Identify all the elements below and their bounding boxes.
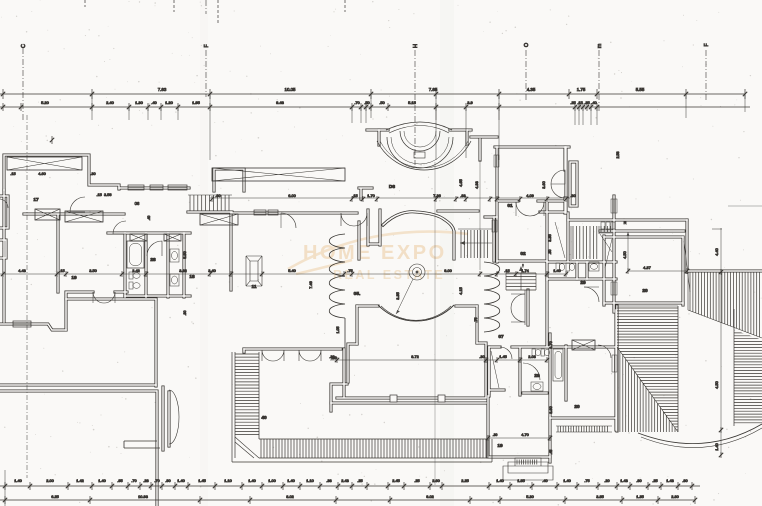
svg-text:5.30: 5.30 [526, 494, 534, 499]
brace band top-left [7, 157, 82, 170]
svg-text:C: C [21, 44, 27, 48]
svg-text:F: F [204, 44, 210, 47]
svg-text:.20: .20 [604, 478, 610, 483]
svg-text:4.09: 4.09 [526, 193, 534, 198]
door arcs room19 terrace [93, 292, 115, 303]
svg-text:↑: ↑ [522, 264, 524, 269]
brace box 19a [35, 209, 60, 220]
sink left 2 [170, 274, 179, 286]
svg-text:.35: .35 [584, 100, 590, 105]
svg-text:3.35: 3.35 [396, 292, 400, 299]
toilet left 1 [129, 272, 133, 279]
grid line m [598, 50, 600, 113]
terrace40 left band [235, 352, 259, 458]
sink NE [589, 262, 599, 271]
porch door arc [70, 197, 85, 212]
sink bath3 [531, 382, 543, 391]
svg-text:4.50: 4.50 [715, 381, 719, 388]
svg-text:.25: .25 [570, 100, 576, 105]
svg-text:.40: .40 [147, 216, 151, 221]
svg-text:1.40: 1.40 [553, 268, 561, 273]
svg-text:.90: .90 [165, 478, 171, 483]
svg-text:5.50: 5.50 [183, 251, 187, 258]
svg-text:.15: .15 [504, 268, 509, 273]
svg-text:.30: .30 [329, 354, 335, 359]
svg-text:17: 17 [33, 197, 39, 203]
window room20low [612, 355, 617, 372]
svg-text:.40: .40 [591, 100, 597, 105]
svg-text:.70: .70 [354, 100, 360, 105]
svg-text:29: 29 [580, 280, 586, 286]
svg-text:4.40: 4.40 [715, 248, 719, 255]
svg-text:.30: .30 [90, 171, 96, 176]
svg-text:3.60: 3.60 [542, 181, 546, 188]
svg-text:7.46: 7.46 [309, 281, 313, 288]
svg-text:10.93: 10.93 [138, 494, 148, 499]
stairs NE [573, 226, 597, 259]
svg-text:2.80: 2.80 [671, 494, 679, 499]
scallops left [329, 234, 345, 318]
bay niche semicircle [377, 141, 471, 170]
central staircase [461, 230, 487, 258]
svg-text:2.43: 2.43 [341, 478, 349, 483]
svg-text:1.40: 1.40 [98, 478, 106, 483]
hatch strip room20low [558, 426, 607, 432]
NE stair rail diagonal [600, 234, 612, 252]
svg-text:1.40: 1.40 [14, 478, 22, 483]
svg-text:4.15: 4.15 [459, 287, 463, 294]
svg-text:5.15: 5.15 [408, 100, 417, 105]
top edge marks [85, 0, 345, 24]
fireplace [246, 256, 262, 286]
svg-text:3.40: 3.40 [208, 268, 216, 273]
svg-text:R: R [624, 220, 627, 225]
double door room03 [551, 170, 565, 198]
room18 door arc1 [281, 213, 296, 228]
svg-text:9.48: 9.48 [276, 100, 285, 105]
svg-text:1.40: 1.40 [287, 478, 295, 483]
svg-text:.80: .80 [682, 478, 688, 483]
svg-text:9.02: 9.02 [426, 494, 434, 499]
bay small semicircle [400, 131, 440, 151]
toilets bath3 [532, 349, 535, 356]
svg-text:.25: .25 [357, 478, 362, 483]
svg-text:.25: .25 [652, 478, 657, 483]
room18 door arc2 pair [341, 213, 367, 226]
stairs left wing [190, 195, 229, 211]
brace box room20low [572, 340, 595, 350]
bottom-left boundary [4, 470, 6, 506]
svg-text:05.: 05. [354, 291, 361, 297]
window bottom-left [13, 321, 31, 327]
svg-text:1.35: 1.35 [636, 494, 644, 499]
toilet left 2 [129, 282, 133, 289]
svg-text:.15 3.56: .15 3.56 [96, 192, 111, 197]
svg-text:1.43: 1.43 [620, 478, 628, 483]
svg-text:11: 11 [251, 284, 256, 290]
bathtub left [127, 241, 144, 268]
chain room19b [488, 437, 550, 439]
svg-text:1.20: 1.20 [165, 100, 174, 105]
lintel box bath A [130, 234, 147, 241]
svg-text:1.10: 1.10 [224, 478, 232, 483]
svg-text:O: O [524, 42, 530, 47]
room20 dim [628, 232, 687, 271]
svg-text:.30: .30 [493, 433, 498, 437]
grid line 6 [705, 50, 707, 100]
svg-text:m: m [597, 43, 603, 48]
svg-text:3.70: 3.70 [549, 341, 553, 348]
svg-text:6.25: 6.25 [51, 494, 59, 499]
sink left 1 [170, 249, 179, 262]
grid line O [525, 50, 527, 100]
svg-text:1.40: 1.40 [248, 478, 256, 483]
NE bottom arcs [638, 424, 762, 444]
svg-text:02: 02 [520, 251, 526, 257]
svg-text:4.37: 4.37 [643, 265, 652, 270]
grid line H [414, 50, 416, 165]
cross tick [51, 136, 53, 144]
bay tab [414, 152, 425, 158]
scallops left lower [344, 318, 346, 348]
svg-text:28: 28 [150, 257, 156, 263]
svg-text:2.40: 2.40 [106, 100, 115, 105]
svg-text:1.05: 1.05 [336, 327, 340, 334]
svg-text:4.43: 4.43 [18, 268, 26, 273]
svg-text:3.92: 3.92 [179, 268, 187, 273]
radius leader [396, 279, 413, 314]
svg-text:5.20: 5.20 [41, 100, 50, 105]
svg-text:5.40: 5.40 [288, 268, 296, 273]
bathtub bath3 [553, 349, 563, 381]
bay outer arch [386, 122, 452, 130]
reference line x435 [434, 162, 436, 485]
svg-text:.90: .90 [215, 193, 221, 198]
svg-text:.15: .15 [577, 100, 583, 105]
svg-text:8.02: 8.02 [286, 494, 294, 499]
hall double door east [511, 294, 525, 322]
svg-text:1.40: 1.40 [715, 443, 719, 450]
svg-text:7.65: 7.65 [429, 87, 438, 92]
scallops right [484, 262, 500, 332]
svg-text:18: 18 [189, 274, 195, 280]
svg-text:4.93: 4.93 [475, 181, 479, 188]
svg-text:.40: .40 [542, 478, 548, 483]
door arc room28 [147, 241, 162, 256]
svg-text:.70: .70 [154, 478, 160, 483]
dimension chain C [0, 485, 700, 487]
chain y199 [210, 197, 570, 199]
porch windows [128, 185, 144, 190]
dimension chain D [0, 499, 695, 501]
svg-text:2.58: 2.58 [616, 152, 620, 159]
dimension chain B [0, 106, 750, 108]
room18 windows [254, 210, 266, 215]
svg-text:4.70: 4.70 [521, 432, 529, 437]
svg-text:1.75: 1.75 [577, 87, 586, 92]
svg-text:2.42: 2.42 [132, 268, 140, 273]
svg-text:4.60: 4.60 [38, 171, 46, 176]
window rooms01 left [494, 155, 499, 167]
svg-text:.75: .75 [584, 478, 589, 483]
svg-text:1.85: 1.85 [517, 478, 525, 483]
svg-text:D8: D8 [389, 184, 395, 190]
svg-text:8.72: 8.72 [411, 354, 419, 359]
svg-text:.15: .15 [59, 268, 64, 273]
svg-text:.75: .75 [474, 318, 478, 323]
svg-text:2.03: 2.03 [528, 354, 536, 359]
svg-text:6.00: 6.00 [288, 193, 296, 198]
NE dim vertical [712, 228, 722, 455]
faint partial line top right [728, 205, 762, 207]
svg-text:.70: .70 [131, 478, 137, 483]
dashed reference line x27 [26, 115, 28, 478]
door arc room20low [598, 345, 611, 358]
left edge door arc [0, 199, 8, 208]
svg-text:01: 01 [507, 203, 513, 209]
terrace40 miter [235, 437, 259, 458]
svg-text:3.50: 3.50 [89, 268, 97, 273]
svg-text:07: 07 [498, 334, 504, 340]
bracket [124, 441, 160, 448]
svg-text:.93: .93 [460, 193, 465, 198]
door arc bath3 inner [523, 363, 540, 380]
door arc room29 [584, 287, 599, 302]
svg-text:.95: .95 [117, 478, 122, 483]
svg-text:20: 20 [642, 288, 648, 294]
svg-text:.45: .45 [549, 450, 553, 455]
svg-text:.30: .30 [570, 193, 576, 198]
toilet NE 1 [556, 263, 560, 271]
svg-text:3.85: 3.85 [596, 494, 604, 499]
railing posts [390, 395, 397, 402]
toilet NE 2 [566, 263, 570, 271]
corridor door arc [113, 221, 126, 234]
brace box 18 [200, 214, 238, 225]
dimension chain A [0, 93, 745, 95]
svg-text:1.40: 1.40 [177, 478, 185, 483]
svg-text:.30: .30 [479, 354, 485, 359]
svg-text:1.00: 1.00 [268, 478, 276, 483]
watermark swoosh [288, 232, 468, 274]
windows room29 right wall [611, 199, 617, 213]
svg-text:9.00: 9.00 [444, 268, 452, 273]
svg-text:3.35: 3.35 [548, 234, 552, 241]
svg-text:2.00: 2.00 [46, 478, 54, 483]
terrace40 door arcs [262, 350, 284, 361]
stairs below room02 [506, 273, 536, 290]
svg-text:1.45: 1.45 [499, 354, 507, 359]
svg-text:1.95: 1.95 [192, 100, 201, 105]
svg-text:10.05: 10.05 [285, 87, 297, 92]
svg-text:4.65: 4.65 [459, 179, 463, 186]
svg-text:5.55: 5.55 [636, 87, 645, 92]
svg-text:7.36: 7.36 [433, 193, 441, 198]
door arc bath3 [500, 347, 512, 359]
mullions room20 band [601, 222, 605, 229]
svg-text:H: H [413, 44, 419, 48]
svg-text:.28: .28 [143, 478, 148, 483]
hall center mark [416, 271, 419, 274]
svg-text:1.70: 1.70 [367, 193, 375, 198]
svg-text:.40: .40 [151, 100, 157, 105]
beam X-band [212, 168, 345, 181]
terrace40 outer boundary [232, 352, 492, 462]
niche arc [169, 390, 179, 444]
svg-text:2.45: 2.45 [392, 478, 400, 483]
svg-text:2.25: 2.25 [461, 478, 469, 483]
svg-text:19: 19 [497, 443, 503, 449]
svg-text:1.30: 1.30 [135, 100, 144, 105]
svg-text:1.42: 1.42 [76, 478, 84, 483]
svg-text:.15: .15 [10, 171, 15, 176]
svg-text:2.60: 2.60 [432, 478, 440, 483]
svg-text:.15: .15 [352, 193, 357, 198]
svg-text:3.9: 3.9 [467, 100, 473, 105]
svg-text:.80: .80 [636, 478, 642, 483]
lintel box bath B [164, 234, 181, 241]
grid line C [22, 48, 24, 120]
terrace40 bottom band [259, 439, 488, 458]
svg-text:20: 20 [574, 404, 580, 410]
room20 window diagonals [605, 239, 690, 292]
svg-text:29: 29 [534, 373, 540, 379]
svg-text:4.50: 4.50 [623, 251, 627, 258]
svg-text:.75: .75 [347, 268, 352, 273]
door arcs room01 [516, 202, 544, 216]
window mid corridor [492, 220, 497, 232]
hall floor sag arc [378, 305, 454, 321]
window diagonal left of NE stairs [555, 222, 565, 258]
svg-text:19: 19 [71, 275, 77, 281]
grid line 2 [205, 0, 207, 97]
steps below room19b [503, 458, 553, 480]
chain y360 [330, 359, 547, 361]
svg-text:40: 40 [261, 415, 267, 421]
svg-text:1.40: 1.40 [496, 478, 504, 483]
svg-text:F: F [704, 43, 710, 46]
svg-text:.50: .50 [379, 100, 385, 105]
svg-text:3.60: 3.60 [549, 406, 553, 413]
svg-text:.38: .38 [326, 478, 331, 483]
svg-text:7.63: 7.63 [158, 87, 167, 92]
chain y274 [0, 273, 568, 275]
svg-text:4.35: 4.35 [527, 87, 536, 92]
bath3 window diagonal [491, 351, 499, 388]
svg-text:.90: .90 [183, 311, 187, 316]
svg-text:1.45: 1.45 [198, 478, 206, 483]
svg-text:.25: .25 [414, 478, 419, 483]
scan streaks [440, 0, 454, 506]
svg-text:.50: .50 [364, 100, 370, 105]
svg-text:1.40: 1.40 [563, 478, 571, 483]
svg-text:1.43: 1.43 [666, 478, 674, 483]
svg-text:06: 06 [135, 201, 140, 206]
brace box 19b [65, 211, 103, 222]
svg-text:.30: .30 [548, 250, 552, 255]
NE white band boundaries [678, 306, 734, 432]
svg-text:1.10: 1.10 [306, 478, 314, 483]
